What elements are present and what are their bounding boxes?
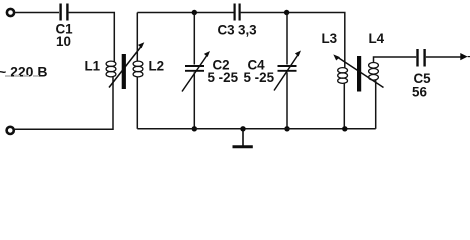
wire L4 top to C5 [374, 57, 417, 63]
ground [233, 129, 253, 147]
variable capacitor C4 [278, 66, 297, 71]
junction C2 bottom [192, 126, 197, 131]
capacitor C3 [235, 4, 240, 21]
junction L3 bottom [342, 126, 347, 131]
wire L4 bottom to rail [375, 80, 377, 129]
wire L2 top to rail [136, 13, 138, 62]
wire C2 branch bottom [193, 72, 195, 129]
svg-text:56: 56 [412, 85, 427, 100]
wire L3 bottom to rail [343, 83, 345, 129]
wire bottom rail [137, 128, 375, 130]
junction C2 top [192, 10, 197, 15]
junction ground [240, 126, 245, 131]
output arrow [460, 53, 470, 60]
inductor L2 [133, 61, 143, 77]
inductor L4 [369, 63, 379, 81]
wire top rail right (C3 to L3) [241, 13, 345, 68]
svg-text:L1: L1 [85, 59, 101, 74]
trimmer arrow C4 [274, 51, 301, 91]
terminal input bottom (220V) [7, 127, 14, 134]
trimmer arrow L3/L4 [333, 54, 383, 87]
core bar L1/L2 [122, 54, 126, 89]
wire top rail left (L2 to C3) [137, 12, 233, 14]
capacitor C5 [418, 49, 425, 67]
variable capacitor C2 [185, 66, 204, 71]
junction C4 bottom [284, 126, 289, 131]
wire L1 bottom to terminal [15, 77, 113, 130]
faint print-through dashes [5, 75, 39, 77]
svg-text:L3: L3 [322, 31, 338, 46]
svg-text:C3: C3 [218, 23, 235, 38]
trimmer arrow L1/L2 [109, 42, 144, 87]
svg-text:L2: L2 [149, 59, 165, 74]
wire terminal to C1 [15, 12, 59, 14]
svg-text:5 -25: 5 -25 [244, 70, 275, 85]
wire C4 branch top [286, 13, 288, 65]
capacitor C1 [61, 4, 68, 21]
terminal input top (220V) [7, 9, 14, 16]
svg-text:L4: L4 [369, 31, 385, 46]
trimmer arrow C2 [182, 51, 210, 92]
svg-text:3,3: 3,3 [238, 23, 257, 38]
inductor L1 [106, 61, 116, 77]
wire C2 branch top [193, 13, 195, 65]
svg-text:5 -25: 5 -25 [208, 70, 239, 85]
junction C4 top [284, 10, 289, 15]
svg-text:~ 220 В: ~ 220 В [0, 64, 47, 80]
inductor L3 [338, 68, 348, 84]
wire C4 branch bottom [286, 72, 288, 129]
wire L2 bottom to rail [136, 77, 138, 129]
svg-text:10: 10 [56, 34, 71, 49]
wire C1 to L1 top corner [69, 13, 115, 62]
core bar L3/L4 [357, 56, 361, 92]
wire C5 to output [426, 56, 461, 58]
